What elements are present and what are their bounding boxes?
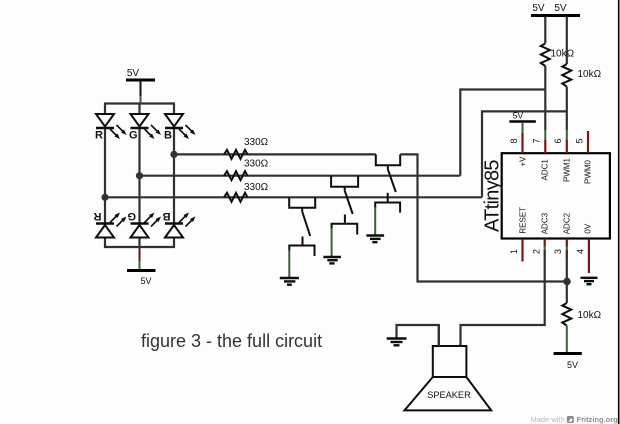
svg-text:figure 3 - the full circuit: figure 3 - the full circuit: [141, 331, 322, 351]
wire bottom rail of lower LEDs: [104, 239, 175, 248]
svg-text:B: B: [164, 130, 172, 142]
junction node G to wire2: [136, 172, 143, 179]
svg-text:5V: 5V: [127, 68, 140, 79]
resistor R6 10k to 5V: [566, 282, 568, 304]
pin 1 stub: [521, 239, 523, 262]
svg-text:ADC3: ADC3: [541, 212, 550, 234]
ground for Q1: [280, 278, 299, 285]
junction node B to wire1: [170, 151, 177, 158]
wire pin 3 down to node: [566, 250, 568, 282]
pin 5 stub: [587, 131, 589, 153]
svg-text:10kΩ: 10kΩ: [578, 69, 602, 80]
svg-text:Fritzing.org: Fritzing.org: [577, 415, 619, 424]
LED B bottom: [165, 213, 196, 238]
svg-text:Made with: Made with: [531, 415, 565, 424]
svg-text:R: R: [94, 210, 102, 222]
svg-text:5V: 5V: [140, 276, 151, 286]
LED B top: [165, 114, 196, 139]
LED G bottom: [131, 213, 162, 238]
svg-text:330Ω: 330Ω: [244, 159, 269, 170]
pin 6 stub: [566, 140, 568, 153]
svg-text:+V: +V: [519, 156, 528, 167]
wire LED column B vertical: [173, 104, 175, 115]
resistor R3 330ohm: [224, 193, 248, 202]
ground for Q2: [323, 257, 341, 263]
pin 3 stub: [566, 239, 568, 248]
ground for speaker: [387, 339, 407, 346]
svg-text:2: 2: [532, 249, 542, 254]
resistor R5 10k pullup (pin6): [566, 17, 568, 64]
wire Q3 emitter to ground: [374, 207, 376, 235]
svg-text:10kΩ: 10kΩ: [578, 310, 602, 321]
wire 2 from G junction to corner: [140, 175, 461, 177]
svg-text:B: B: [163, 210, 171, 222]
wire top rail of upper LEDs: [104, 102, 175, 104]
svg-text:10kΩ: 10kΩ: [551, 49, 575, 60]
junction node R to wire3: [101, 194, 108, 201]
speaker LS1: [405, 325, 492, 410]
svg-text:7: 7: [532, 138, 542, 143]
svg-text:G: G: [129, 130, 138, 142]
ground for Q3: [366, 236, 384, 243]
wire 1 from B junction to Q3: [174, 153, 376, 155]
wire Q1 emitter to ground: [288, 250, 290, 278]
wire LED column G vertical: [138, 104, 140, 115]
transistor Q3: [375, 154, 400, 212]
LED G top: [131, 114, 162, 139]
svg-text:ADC2: ADC2: [563, 212, 572, 234]
svg-text:PWM1: PWM1: [563, 157, 572, 182]
IC U1 ATtiny85 box: [502, 153, 610, 238]
svg-text:RESET: RESET: [519, 207, 528, 234]
svg-text:330Ω: 330Ω: [244, 137, 269, 148]
LED R bottom: [96, 213, 127, 238]
svg-text:SPEAKER: SPEAKER: [427, 390, 471, 400]
wire 3 up at 482 and right to pin6 column: [482, 111, 567, 197]
pin 7 stub: [544, 140, 546, 153]
wire Q2 emitter to ground: [331, 228, 333, 257]
svg-text:PWM0: PWM0: [584, 159, 593, 184]
svg-text:330Ω: 330Ω: [244, 182, 269, 193]
wire pin 2 down-left to speaker: [461, 250, 545, 346]
transistor Q1: [289, 197, 315, 256]
LED R top: [96, 114, 127, 139]
wire B column mid: [173, 129, 175, 223]
wire LED column R vertical: [104, 104, 106, 115]
ground for pin 4: [581, 278, 598, 284]
wire speaker left terminal to ground: [397, 325, 439, 346]
svg-text:4: 4: [576, 249, 586, 254]
wire Q2 drain up to pin7 column: [460, 90, 545, 176]
svg-text:5V: 5V: [554, 3, 567, 14]
resistor R4 10k pullup (pin7): [544, 17, 546, 43]
power 5V above pin 8: [509, 110, 535, 134]
svg-text:ATtiny85: ATtiny85: [482, 160, 504, 232]
svg-text:ADC1: ADC1: [541, 159, 550, 181]
junction node pin3 column: [563, 278, 571, 286]
power 5V rail top-right: [531, 3, 580, 16]
power 5V top-left: [126, 68, 155, 104]
svg-text:G: G: [127, 210, 136, 222]
border right edge: [618, 0, 620, 424]
wire R column mid: [104, 129, 106, 223]
pin 4 stub: [588, 239, 590, 274]
pin 8 stub: [521, 133, 523, 153]
svg-text:1: 1: [509, 249, 519, 254]
svg-text:3: 3: [553, 249, 563, 254]
svg-text:8: 8: [509, 138, 519, 143]
svg-text:0V: 0V: [584, 223, 593, 233]
resistor R1 330ohm: [224, 150, 248, 159]
wire G column mid: [138, 129, 140, 223]
watermark Made with Fritzing.org: [531, 415, 619, 424]
svg-text:5V: 5V: [532, 3, 545, 14]
power 5V bottom-left: [127, 247, 156, 286]
wire Q3 drain right and down to node: [400, 154, 567, 281]
svg-text:R: R: [95, 130, 103, 142]
pin 2 stub: [544, 239, 546, 248]
transistor Q2: [331, 176, 358, 235]
svg-text:5V: 5V: [567, 360, 578, 370]
power 5V bottom-right: [554, 354, 582, 371]
wire 3 from R junction to corner: [105, 196, 482, 198]
svg-text:5V: 5V: [513, 110, 524, 120]
svg-text:6: 6: [553, 138, 563, 143]
svg-text:5: 5: [575, 138, 585, 143]
resistor R2 330ohm: [224, 171, 248, 180]
